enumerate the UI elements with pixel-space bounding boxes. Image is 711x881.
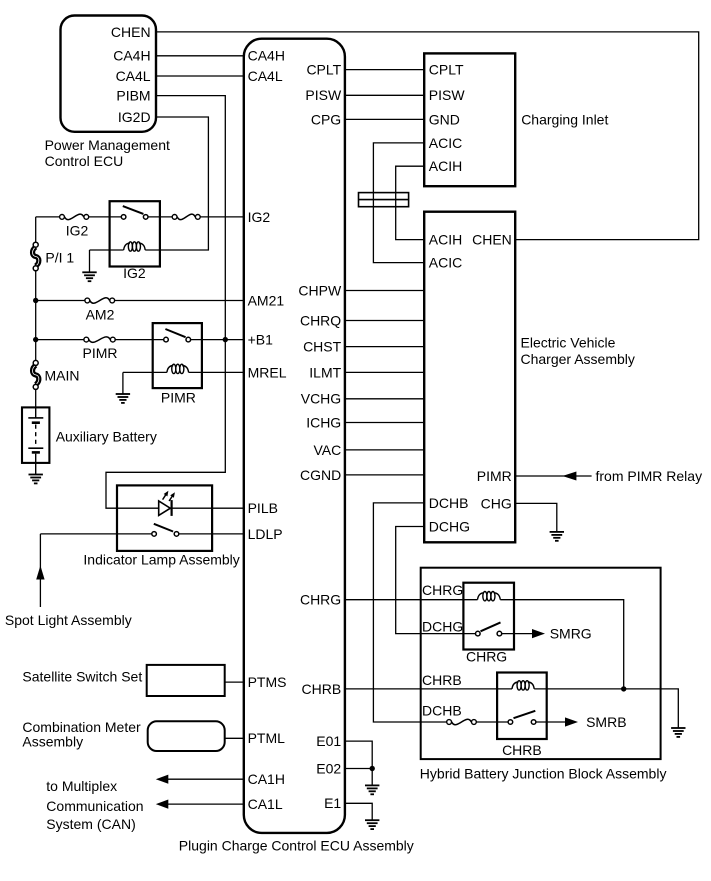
- label to Multiplex Communication System (CAN): [46, 778, 143, 832]
- wire ACIC inlet to charger: [373, 143, 424, 263]
- relay CHRB switch: [508, 720, 513, 725]
- svg-text:+B1: +B1: [248, 332, 274, 348]
- arrow SMRG: [532, 629, 545, 638]
- svg-text:ACIH: ACIH: [429, 232, 462, 248]
- wire DCHB from charger to CHRB switch: [373, 503, 446, 722]
- svg-text:CA1L: CA1L: [248, 796, 283, 812]
- junction node AM2 row: [33, 298, 38, 303]
- relay IG2 box: [110, 201, 160, 266]
- svg-text:PILB: PILB: [248, 500, 278, 516]
- wire PISW: [345, 94, 424, 96]
- Charging Inlet box: [424, 53, 515, 186]
- wire CA4L: [156, 75, 244, 77]
- svg-text:Auxiliary Battery: Auxiliary Battery: [56, 428, 157, 444]
- svg-text:DCHB: DCHB: [429, 495, 469, 511]
- svg-text:Indicator Lamp Assembly: Indicator Lamp Assembly: [83, 552, 239, 568]
- wire PIMR/+B1 row: [36, 339, 84, 341]
- svg-text:E02: E02: [316, 760, 341, 776]
- svg-text:CA4L: CA4L: [248, 68, 283, 84]
- svg-text:CHPW: CHPW: [298, 282, 342, 298]
- fusible link P/I 1: [33, 247, 39, 266]
- wire CPG to GND: [345, 118, 424, 120]
- wire LDLP to Spot Light Assembly: [40, 533, 151, 535]
- svg-text:CHRQ: CHRQ: [300, 312, 341, 328]
- fuse DCHB: [447, 720, 452, 725]
- wire ICHG ECU to charger: [345, 422, 424, 424]
- wire IG2 coil to ground: [90, 249, 124, 251]
- svg-text:Charger Assembly: Charger Assembly: [521, 351, 635, 367]
- fuse after IG2 relay: [172, 215, 177, 220]
- svg-text:SMRG: SMRG: [550, 626, 592, 642]
- wire CHRB coil to ground: [534, 689, 678, 728]
- svg-text:CHRG: CHRG: [422, 582, 463, 598]
- fusible link MAIN: [33, 365, 39, 384]
- wire CA1H to CAN: [168, 778, 244, 780]
- wire IG2 row: [36, 216, 60, 218]
- relay IG2 coil: [124, 243, 130, 250]
- battery cells: [28, 407, 43, 474]
- svg-text:PTML: PTML: [248, 730, 286, 746]
- wire CPLT: [345, 69, 424, 71]
- svg-text:CHRG: CHRG: [300, 592, 341, 608]
- svg-text:P/I 1: P/I 1: [45, 250, 74, 266]
- svg-text:CA4L: CA4L: [116, 68, 151, 84]
- svg-text:DCHG: DCHG: [422, 619, 463, 635]
- svg-text:CGND: CGND: [300, 467, 341, 483]
- svg-text:CPLT: CPLT: [429, 62, 464, 78]
- wire E02: [345, 768, 372, 770]
- svg-text:VAC: VAC: [313, 442, 341, 458]
- fuse AM2: [85, 298, 90, 303]
- svg-text:CHEN: CHEN: [111, 24, 151, 40]
- wire CHRB from ECU to relay coil: [345, 688, 512, 690]
- svg-text:Power Management: Power Management: [45, 137, 170, 153]
- svg-text:CPG: CPG: [311, 111, 341, 127]
- arrow CA1L: [156, 800, 169, 809]
- svg-text:IG2: IG2: [123, 265, 146, 281]
- svg-text:AM2: AM2: [86, 307, 115, 323]
- svg-text:DCHB: DCHB: [422, 703, 462, 719]
- ground of E01/E02: [365, 785, 379, 787]
- wire CHRG coil to junction: [500, 600, 623, 689]
- relay CHRG box: [463, 583, 514, 650]
- junction +B1 and PIBM trunk: [223, 337, 228, 342]
- svg-text:PIMR: PIMR: [161, 390, 196, 406]
- wire CA4H: [156, 55, 244, 57]
- svg-text:LDLP: LDLP: [248, 526, 283, 542]
- wire E01 to ground: [345, 741, 372, 785]
- wire SMRB output: [536, 721, 565, 723]
- ground of CHG: [550, 531, 564, 533]
- ground of PIMR relay: [116, 393, 130, 395]
- left power trunk wire: [35, 217, 37, 242]
- wire E1 to ground: [345, 803, 372, 820]
- Hybrid Battery Junction Block Assembly box: [421, 568, 661, 759]
- ground of CHRB coils: [671, 727, 685, 729]
- junction node PIMR row: [33, 337, 38, 342]
- svg-text:IG2D: IG2D: [118, 109, 151, 125]
- svg-text:CA4H: CA4H: [248, 48, 285, 64]
- svg-text:Charging Inlet: Charging Inlet: [521, 111, 608, 127]
- svg-text:ICHG: ICHG: [306, 414, 341, 430]
- svg-text:ACIC: ACIC: [429, 135, 462, 151]
- junction CHRG/CHRB coils: [621, 686, 626, 691]
- fuse PIMR: [84, 337, 89, 342]
- wire VAC ECU to charger: [345, 449, 424, 451]
- svg-text:PISW: PISW: [305, 87, 342, 103]
- wire VCHG ECU to charger: [345, 398, 424, 400]
- Power Management Control ECU box: [61, 16, 157, 132]
- svg-text:System (CAN): System (CAN): [46, 816, 135, 832]
- wire PILB from LED to ECU: [172, 507, 244, 509]
- relay CHRG switch: [476, 631, 481, 636]
- svg-text:from PIMR Relay: from PIMR Relay: [596, 468, 703, 484]
- junction E01/E02: [370, 766, 375, 771]
- svg-text:CHRG: CHRG: [466, 649, 507, 665]
- wire ILMT ECU to charger: [345, 371, 424, 373]
- svg-text:DCHG: DCHG: [429, 518, 470, 534]
- svg-text:CHST: CHST: [303, 339, 342, 355]
- svg-text:ACIH: ACIH: [429, 158, 462, 174]
- relay CHRG coil: [478, 593, 484, 600]
- arrow SMRB: [565, 717, 578, 726]
- wire CHG to ground: [515, 503, 557, 532]
- relay CHRB coil: [512, 682, 518, 689]
- svg-text:MREL: MREL: [248, 364, 287, 380]
- relay IG2 switch: [121, 215, 126, 220]
- svg-text:Hybrid Battery Junction Block: Hybrid Battery Junction Block Assembly: [420, 766, 667, 782]
- svg-text:GND: GND: [429, 111, 460, 127]
- svg-text:CHEN: CHEN: [472, 232, 512, 248]
- svg-text:E01: E01: [316, 733, 341, 749]
- label Combination Meter Assembly: [22, 719, 141, 749]
- svg-text:ACIC: ACIC: [429, 255, 462, 271]
- wire CGND ECU to charger: [345, 474, 424, 476]
- svg-text:PISW: PISW: [429, 87, 466, 103]
- ground of IG2 relay: [82, 271, 96, 273]
- wire IG2D to IG2 relay coil: [145, 117, 208, 250]
- svg-text:PIBM: PIBM: [116, 88, 150, 104]
- LED of indicator lamp: [159, 491, 175, 516]
- svg-text:to Multiplex: to Multiplex: [46, 778, 117, 794]
- svg-text:Plugin Charge Control ECU Asse: Plugin Charge Control ECU Assembly: [179, 838, 414, 854]
- arrow to Spot Light Assembly: [36, 566, 44, 580]
- relay PIMR switch: [164, 337, 169, 342]
- svg-text:CPLT: CPLT: [306, 62, 341, 78]
- wire ACIH inlet to charger: [396, 166, 425, 239]
- Satellite Switch Set box: [147, 665, 225, 696]
- ground of battery: [29, 474, 43, 476]
- svg-text:Communication: Communication: [46, 798, 143, 814]
- svg-text:Satellite Switch Set: Satellite Switch Set: [22, 669, 142, 685]
- svg-text:PIMR: PIMR: [477, 468, 512, 484]
- svg-text:IG2: IG2: [66, 223, 89, 239]
- svg-text:MAIN: MAIN: [45, 368, 80, 384]
- svg-text:CHRB: CHRB: [502, 742, 542, 758]
- wire AM2 row: [36, 300, 85, 302]
- svg-text:CA4H: CA4H: [113, 48, 150, 64]
- wire CA1L to CAN: [168, 803, 244, 805]
- wire CHEN from PMC ECU to EV Charger CHEN: [156, 32, 699, 240]
- wire PTML: [225, 737, 244, 739]
- wire CHPW ECU to charger: [345, 290, 424, 292]
- wire SMRG output: [502, 633, 532, 635]
- noise filter on ACIC/ACIH wires: [359, 193, 409, 207]
- svg-text:IG2: IG2: [248, 209, 271, 225]
- relay PIMR coil: [167, 366, 173, 373]
- relay PIMR box: [153, 323, 202, 388]
- svg-text:PTMS: PTMS: [248, 674, 287, 690]
- svg-text:Control ECU: Control ECU: [45, 153, 124, 169]
- wire PTMS: [225, 681, 244, 683]
- switch of indicator lamp: [152, 532, 157, 537]
- svg-text:CA1H: CA1H: [248, 771, 285, 787]
- wire PIBM to +B1 junction and Indicator Lamp: [106, 96, 225, 509]
- wire CHST ECU to charger: [345, 346, 424, 348]
- Indicator Lamp Assembly box: [117, 485, 212, 551]
- Auxiliary Battery box: [22, 407, 49, 463]
- wire PIMR coil to ground: [123, 371, 167, 373]
- Combination Meter Assembly box: [148, 721, 225, 751]
- wire DCHG from charger to CHRG switch: [396, 527, 476, 634]
- svg-text:VCHG: VCHG: [301, 391, 341, 407]
- ground of E1: [365, 819, 379, 821]
- svg-text:Electric Vehicle: Electric Vehicle: [521, 335, 616, 351]
- label Power Management Control ECU: [45, 137, 170, 169]
- wire MREL row: [189, 371, 244, 373]
- svg-text:E1: E1: [324, 795, 341, 811]
- wire CHRG from ECU to relay coil: [345, 599, 478, 601]
- svg-text:Spot Light Assembly: Spot Light Assembly: [5, 612, 132, 628]
- label Electric Vehicle Charger Assembly: [521, 335, 635, 368]
- svg-text:PIMR: PIMR: [83, 345, 118, 361]
- arrow CA1H: [156, 775, 169, 784]
- fuse IG2: [60, 215, 65, 220]
- Electric Vehicle Charger Assembly box: [424, 212, 515, 543]
- Plugin Charge Control ECU Assembly box: [244, 39, 345, 833]
- wire CHRQ ECU to charger: [345, 320, 424, 322]
- svg-text:Assembly: Assembly: [22, 733, 83, 749]
- svg-text:AM21: AM21: [248, 292, 285, 308]
- relay CHRB box: [497, 673, 547, 740]
- wire PIMR from PIMR relay to charger: [515, 475, 591, 477]
- svg-text:CHRB: CHRB: [422, 672, 462, 688]
- svg-text:ILMT: ILMT: [309, 364, 341, 380]
- arrow from PIMR Relay: [562, 472, 576, 481]
- svg-text:CHG: CHG: [481, 495, 512, 511]
- wire LDLP to ECU: [179, 533, 244, 535]
- svg-text:CHRB: CHRB: [302, 681, 342, 697]
- svg-text:SMRB: SMRB: [586, 714, 626, 730]
